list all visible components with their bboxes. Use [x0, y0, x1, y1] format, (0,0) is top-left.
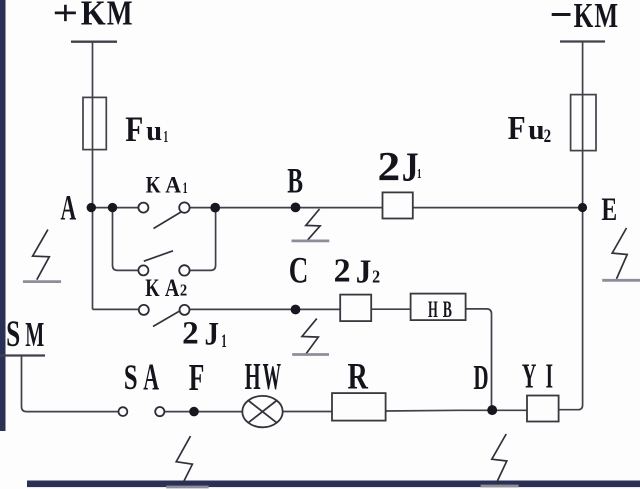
- node F junction dot: [189, 407, 199, 417]
- wire row1 A to KA1 contact: [93, 207, 139, 209]
- label relay coil 2J1: [378, 143, 422, 190]
- label component HB: [428, 297, 452, 322]
- break symbol at node B: [292, 209, 330, 241]
- svg-text:S: S: [6, 313, 20, 354]
- svg-text:A: A: [143, 357, 159, 398]
- contact KA1 right pole: [179, 202, 189, 212]
- svg-text:K: K: [146, 172, 161, 197]
- label fuse Fu2: [508, 110, 551, 147]
- svg-text:R: R: [348, 357, 369, 398]
- svg-text:K: K: [145, 275, 160, 302]
- label contact 2J1: [182, 316, 227, 353]
- node A junction dot: [87, 203, 96, 212]
- contact KA1 left pole: [138, 203, 148, 213]
- svg-text:E: E: [601, 192, 617, 228]
- node E junction dot: [578, 203, 587, 212]
- node B junction dot: [291, 203, 301, 213]
- terminal SM bar: [0, 354, 45, 356]
- svg-text:1: 1: [221, 331, 227, 352]
- wire SM down and right to switch SA: [22, 356, 119, 412]
- svg-text:H: H: [428, 297, 438, 322]
- svg-text:K: K: [574, 0, 594, 35]
- svg-text:2: 2: [544, 126, 552, 147]
- break symbol at node C: [292, 319, 329, 355]
- wire row2 coil 2J2 to HB: [371, 308, 410, 310]
- wire HB right then down to node D: [466, 309, 492, 410]
- svg-text:A: A: [165, 172, 181, 197]
- junction dot KA1 to KA2 branch: [210, 203, 220, 213]
- fuse Fu1: [83, 97, 106, 149]
- svg-text:I: I: [546, 356, 553, 396]
- left edge dark bar: [0, 0, 6, 431]
- svg-text:W: W: [263, 356, 281, 398]
- fuse Fu2: [571, 95, 596, 151]
- svg-text:1: 1: [417, 167, 422, 182]
- node A second junction dot: [108, 203, 117, 212]
- svg-text:J: J: [356, 254, 372, 291]
- contact KA2 blade: [144, 251, 173, 261]
- svg-text:u: u: [146, 116, 162, 147]
- svg-text:M: M: [107, 0, 133, 32]
- wire KA2 parallel branch right side: [190, 208, 216, 271]
- bottom edge dark bar: [27, 481, 640, 488]
- node D junction dot: [487, 405, 497, 415]
- wire resistor R to YI through node D: [386, 409, 527, 412]
- svg-text:M: M: [25, 315, 44, 354]
- contact KA2 left pole: [138, 265, 148, 275]
- svg-text:1: 1: [163, 127, 168, 146]
- label contact KA1: [146, 172, 188, 197]
- terminal +KM bar: [71, 41, 117, 43]
- label switch SA: [124, 357, 159, 398]
- contact KA1 blade: [154, 212, 182, 229]
- svg-text:F: F: [189, 357, 205, 399]
- wire row2 contact 2J1 to coil 2J2 through node C: [190, 308, 340, 310]
- relay coil 2J1: [383, 192, 413, 218]
- svg-text:2: 2: [182, 316, 199, 352]
- label terminal SM: [6, 313, 44, 354]
- contact 2J1 left pole: [139, 305, 149, 315]
- svg-text:u: u: [528, 115, 545, 146]
- wire row1 coil 2J1 to node E: [413, 207, 583, 209]
- resistor R: [332, 393, 386, 421]
- svg-text:K: K: [81, 0, 106, 32]
- svg-text:F: F: [125, 109, 143, 149]
- break symbol at node F: [166, 436, 208, 487]
- svg-text:1: 1: [183, 180, 188, 197]
- label contact KA2: [145, 275, 187, 302]
- break symbol at node E: [602, 228, 640, 280]
- break symbol at node A: [23, 230, 61, 282]
- label relay coil 2J2: [334, 253, 381, 291]
- svg-text:S: S: [124, 357, 138, 397]
- svg-text:C: C: [289, 250, 309, 291]
- label terminal -KM: [552, 0, 618, 35]
- lamp HW: [242, 396, 282, 427]
- svg-text:A: A: [61, 188, 77, 228]
- contact 2J1 blade: [153, 311, 181, 327]
- switch SA right pole: [155, 407, 164, 416]
- svg-text:D: D: [473, 357, 488, 397]
- label terminal +KM: [55, 0, 133, 32]
- relay coil 2J2: [340, 295, 371, 322]
- svg-text:H: H: [245, 356, 261, 398]
- wire lamp HW to resistor R: [283, 411, 332, 413]
- svg-text:F: F: [508, 110, 526, 147]
- svg-text:J: J: [205, 317, 220, 353]
- svg-text:Y: Y: [522, 356, 537, 396]
- wire SA to lamp HW through node F: [164, 411, 242, 413]
- wire left rail from +KM through fuse Fu1 to node A and down to row 2: [92, 42, 94, 309]
- contact 2J1 right pole: [180, 305, 190, 315]
- label fuse Fu1: [125, 109, 168, 149]
- label lamp HW: [245, 356, 281, 398]
- terminal -KM bar: [560, 40, 605, 42]
- component HB box: [411, 294, 466, 321]
- svg-text:B: B: [443, 297, 452, 322]
- svg-text:A: A: [165, 275, 179, 302]
- component YI box: [527, 396, 559, 422]
- svg-text:B: B: [287, 161, 303, 201]
- contact KA2 right pole: [179, 265, 189, 275]
- svg-text:M: M: [594, 0, 618, 35]
- wire right rail from -KM through fuse Fu2 to node E down to YI: [559, 42, 583, 410]
- wire row1 KA1 to coil 2J1 through junction and node B: [190, 207, 383, 209]
- node C junction dot: [291, 305, 301, 315]
- switch SA left pole: [119, 407, 128, 416]
- wire row2 A rail to contact 2J1: [93, 308, 139, 310]
- svg-text:2: 2: [372, 267, 380, 287]
- svg-text:2: 2: [378, 143, 401, 189]
- label component YI: [522, 356, 553, 396]
- break symbol at node D: [481, 434, 519, 486]
- svg-text:2: 2: [180, 280, 187, 299]
- wire KA2 parallel branch left side: [113, 208, 139, 271]
- svg-text:2: 2: [334, 253, 351, 290]
